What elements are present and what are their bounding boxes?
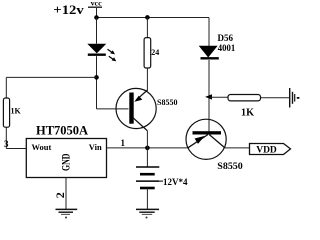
svg-text:Wout: Wout: [32, 142, 52, 152]
ground (below regulator): [56, 209, 78, 218]
svg-text:S8550: S8550: [157, 98, 177, 107]
pin label Vin: [89, 142, 102, 152]
wire top rail: [97, 17, 210, 19]
LED D1: [87, 44, 106, 55]
svg-text:+12v: +12v: [53, 3, 84, 17]
transistor Q2 S8550: [186, 119, 226, 159]
wire to resistor R3: [211, 96, 229, 98]
svg-text:S8550: S8550: [217, 162, 243, 172]
wire LED cathode down to Q1 base corner: [96, 56, 98, 109]
power symbol VCC: [88, 0, 102, 18]
svg-text:24: 24: [151, 48, 159, 57]
regulator U1 HT7050A box: [26, 139, 106, 178]
svg-text:2: 2: [53, 192, 67, 198]
svg-text:1K: 1K: [11, 107, 22, 116]
wire Q1 collector to node 1: [146, 131, 148, 148]
svg-text:D56: D56: [218, 33, 234, 43]
wire vcc node to LED: [96, 18, 98, 44]
wire node 1 rail (Vin to Q2 emitter): [107, 147, 189, 149]
label +12v: [53, 3, 84, 17]
ground (right, rotated): [290, 88, 300, 108]
svg-text:12V*4: 12V*4: [163, 177, 188, 187]
junction LED node: [94, 75, 99, 80]
pin label Wout: [32, 142, 52, 152]
pin 2 label (rotated): [53, 192, 67, 198]
svg-text:3: 3: [4, 139, 9, 149]
wire diode cathode to Q2 base: [208, 60, 210, 132]
junction vcc node: [94, 15, 99, 20]
wire Q1 base lead: [97, 108, 129, 110]
svg-text:vcc: vcc: [91, 0, 103, 7]
resistor R3 body: [228, 95, 261, 101]
wire resistor R1 to pin 3: [6, 127, 26, 148]
svg-text:Vin: Vin: [89, 142, 102, 152]
wire LED node to left column: [6, 76, 96, 78]
svg-text:1K: 1K: [241, 107, 254, 118]
wire left column to resistor R1: [5, 77, 7, 98]
label S8550 (Q2): [217, 162, 243, 172]
battery B1: [136, 148, 163, 210]
svg-text:HT7050A: HT7050A: [36, 124, 88, 138]
label 12V*4: [163, 177, 188, 187]
svg-text:4001: 4001: [218, 43, 236, 53]
transistor Q1 S8550: [116, 88, 156, 130]
svg-text:GND: GND: [59, 153, 73, 171]
label HT7050A: [36, 124, 88, 138]
net flag VDD: [250, 144, 291, 156]
wire resistor R3 to ground: [261, 97, 290, 99]
label S8550 (Q1): [157, 98, 177, 107]
node arrow at diode/resistor junction: [205, 94, 212, 99]
wire Q2 collector to VDD: [225, 147, 250, 149]
label D56: [218, 33, 234, 43]
svg-text:1: 1: [121, 138, 126, 148]
label 24: [151, 48, 159, 57]
resistor R2 body: [144, 18, 151, 69]
junction resistor R2 top: [145, 15, 150, 20]
label 1K (left): [11, 107, 22, 116]
ground (below battery): [136, 209, 159, 218]
label 4001: [218, 43, 236, 53]
LED emission arrows: [108, 49, 117, 61]
pin label GND (rotated): [59, 153, 73, 171]
wire GND pin down: [65, 178, 67, 210]
junction battery node: [145, 146, 150, 151]
diode D56 4001: [199, 46, 219, 59]
resistor R1 body: [3, 98, 9, 127]
pin 3 label: [4, 139, 9, 149]
wire right rail down to diode: [208, 18, 210, 47]
svg-text:VDD: VDD: [256, 145, 277, 155]
pin 1 label: [121, 138, 126, 148]
wire resistor R2 to Q1 emitter: [146, 68, 148, 91]
label 1K (right): [241, 107, 254, 118]
